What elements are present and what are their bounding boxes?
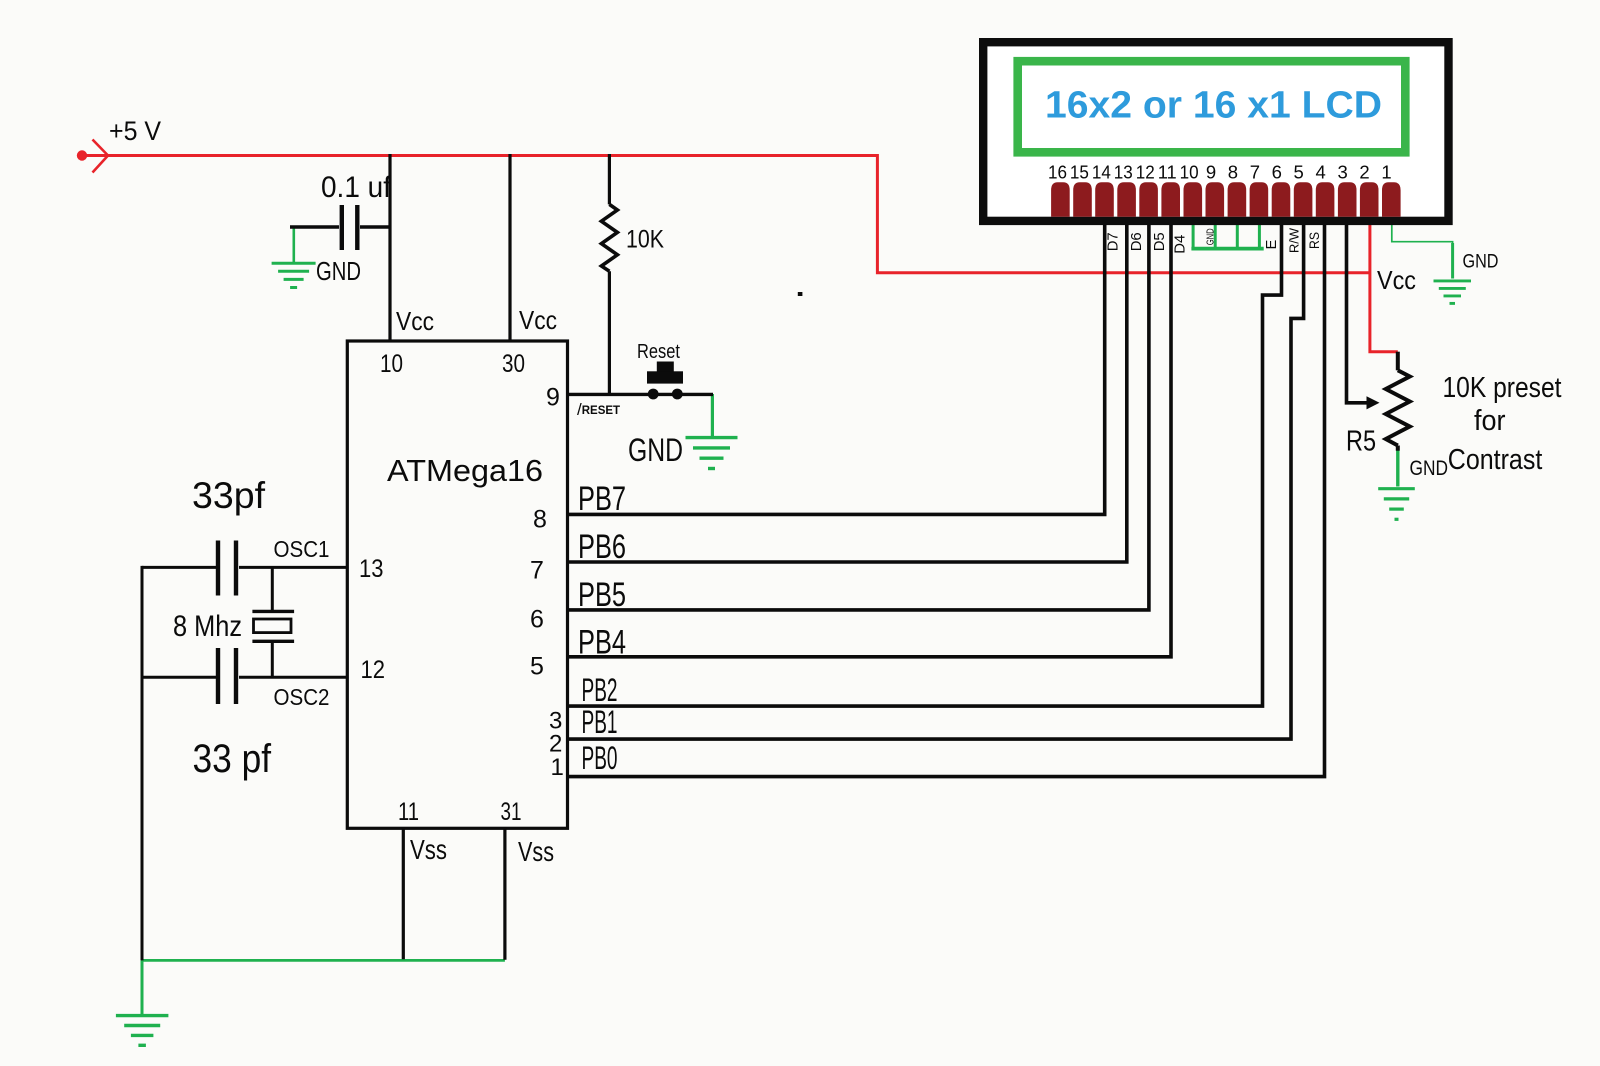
svg-text:PB5: PB5 <box>578 576 626 614</box>
wire +5V bus to 10K resistor top <box>608 154 611 204</box>
svg-text:PB4: PB4 <box>578 624 626 662</box>
svg-text:GND: GND <box>1410 457 1449 480</box>
svg-text:Vss: Vss <box>410 834 447 865</box>
svg-text:16: 16 <box>1048 162 1067 183</box>
svg-text:10K preset: 10K preset <box>1443 372 1562 404</box>
svg-text:10K: 10K <box>626 226 664 254</box>
LCD pin numbers 16..1 <box>1048 162 1392 183</box>
svg-text:/RESET: /RESET <box>577 400 620 419</box>
svg-text:PB6: PB6 <box>578 528 626 566</box>
wire Vcc pin30 vertical from +5V bus to IC <box>508 154 511 341</box>
ground symbol (C1 decoupling cap) <box>272 263 316 287</box>
capacitor C1 0.1uf plates <box>340 205 344 250</box>
svg-text:11: 11 <box>1158 162 1177 183</box>
wire PB2 to LCD E (pin6) with jog <box>568 224 1282 706</box>
svg-text:15: 15 <box>1070 162 1089 183</box>
svg-text:R5: R5 <box>1346 426 1376 458</box>
svg-text:1: 1 <box>1381 162 1391 183</box>
svg-text:13: 13 <box>1114 162 1133 183</box>
svg-text:10: 10 <box>1180 162 1199 183</box>
svg-text:+5 V: +5 V <box>109 116 161 146</box>
LCD pin pads 16..1 <box>1051 182 1401 217</box>
svg-text:5: 5 <box>530 653 544 681</box>
svg-text:Vcc: Vcc <box>519 305 557 335</box>
svg-text:3: 3 <box>1337 162 1347 183</box>
svg-text:33pf: 33pf <box>192 474 266 516</box>
ground symbol (R5 contrast preset) <box>1378 489 1415 520</box>
svg-text:D5: D5 <box>1152 232 1168 251</box>
svg-text:33 pf: 33 pf <box>193 737 272 781</box>
svg-text:5: 5 <box>1294 162 1304 183</box>
wire green reset button to ground <box>711 394 714 437</box>
wire OSC2 net from left rail to IC pin12 <box>142 676 216 679</box>
svg-text:for: for <box>1474 405 1506 437</box>
svg-text:R/W: R/W <box>1287 227 1302 253</box>
wire PB1 to LCD R/W (pin5) with jog <box>568 224 1304 739</box>
resistor R5 10K preset body <box>1396 352 1400 371</box>
svg-text:7: 7 <box>1250 162 1260 183</box>
wire green bottom ground rail under IC <box>141 959 505 962</box>
svg-text:RS: RS <box>1306 232 1322 249</box>
svg-text:Contrast: Contrast <box>1448 444 1543 476</box>
wire 10K resistor bottom to /RESET node <box>608 271 611 394</box>
svg-text:PB0: PB0 <box>582 740 618 776</box>
capacitor C3 33pf plates (bottom) <box>216 648 220 704</box>
svg-text:E: E <box>1264 239 1280 249</box>
svg-text:12: 12 <box>361 656 386 684</box>
push button SW1 Reset <box>647 362 683 400</box>
wire PB0 to LCD RS (pin4) <box>568 224 1325 777</box>
wire PB4 to LCD D4 (pin11) <box>568 224 1172 657</box>
LCD module outer frame <box>983 42 1448 221</box>
svg-text:8: 8 <box>1228 162 1238 183</box>
wire ground lead of C1 <box>292 227 295 262</box>
svg-text:GND: GND <box>1463 252 1499 273</box>
crystal X1 8Mhz symbol <box>252 567 294 677</box>
svg-text:GND: GND <box>316 256 361 286</box>
capacitor C1 0.1uf leads <box>290 225 339 228</box>
svg-text:D4: D4 <box>1173 235 1189 254</box>
capacitor C2 33pf plates (top) <box>216 541 220 596</box>
wire LCD pin3 contrast to R5 wiper arrow <box>1347 224 1368 403</box>
wire Vss pin11 to ground rail <box>402 828 405 959</box>
svg-text:2: 2 <box>1359 162 1369 183</box>
LCD green display bezel <box>1018 61 1406 152</box>
svg-text:PB2: PB2 <box>582 672 618 708</box>
resistor R-10K reset pull-up zigzag <box>601 204 617 271</box>
svg-text:Vcc: Vcc <box>396 306 434 336</box>
wire green LCD pin1 to ground <box>1392 225 1453 279</box>
svg-text:14: 14 <box>1092 162 1111 183</box>
svg-text:12: 12 <box>1136 162 1155 183</box>
op-amp U1 ATMega16 IC body <box>347 341 567 828</box>
svg-text:D6: D6 <box>1129 232 1145 251</box>
svg-text:30: 30 <box>502 350 525 378</box>
svg-text:D7: D7 <box>1106 232 1122 251</box>
svg-text:Vcc: Vcc <box>1377 265 1416 295</box>
wire OSC1 net from left rail to IC pin13 <box>142 566 216 569</box>
svg-text:PB1: PB1 <box>582 704 618 740</box>
wire PB5 to LCD D5 (pin12) <box>568 224 1149 610</box>
svg-text:OSC2: OSC2 <box>274 684 330 710</box>
svg-text:0.1 uf: 0.1 uf <box>321 171 392 204</box>
wire left vertical rail joining 33pf caps to ground <box>141 566 144 961</box>
wire pin9 /RESET from IC through reset button <box>568 393 714 396</box>
wire green R5 bottom to ground <box>1396 447 1399 487</box>
svg-text:11: 11 <box>398 798 419 826</box>
svg-text:1: 1 <box>551 754 564 781</box>
ground symbol (LCD pin1) <box>1434 281 1472 304</box>
ground symbol (reset button) <box>686 438 738 469</box>
wire red LCD pin2 Vcc drop to R5 top <box>1370 224 1398 352</box>
svg-text:16x2 or 16 x1 LCD: 16x2 or 16 x1 LCD <box>1045 85 1382 127</box>
svg-text:OSC1: OSC1 <box>274 536 330 562</box>
svg-text:Reset: Reset <box>637 341 680 363</box>
junction speck near x=800 <box>798 292 803 296</box>
wire +5V red bus: top horizontal, drop at x=877, horizontal to LCD pin2 column <box>82 156 1370 273</box>
wire Vss pin31 to ground rail <box>503 828 506 960</box>
svg-text:ATMega16: ATMega16 <box>387 453 543 488</box>
svg-text:8: 8 <box>533 506 547 534</box>
svg-text:13: 13 <box>359 555 384 583</box>
svg-text:9: 9 <box>546 384 560 412</box>
svg-text:GND: GND <box>1205 228 1216 245</box>
node +5V supply terminal (red dot and arrow) <box>77 140 108 173</box>
svg-text:6: 6 <box>530 606 544 634</box>
svg-text:6: 6 <box>1272 162 1282 183</box>
svg-text:31: 31 <box>501 798 522 826</box>
svg-text:PB7: PB7 <box>578 480 626 518</box>
svg-text:Vss: Vss <box>518 836 554 867</box>
svg-text:7: 7 <box>530 557 544 585</box>
ground symbol (main ground, bottom left) <box>116 1016 168 1046</box>
svg-text:10: 10 <box>380 350 403 378</box>
svg-text:GND: GND <box>628 432 683 468</box>
wire PB7 to LCD D7 (pin14) <box>568 224 1105 514</box>
svg-text:9: 9 <box>1206 162 1216 183</box>
svg-text:8 Mhz: 8 Mhz <box>173 610 242 643</box>
wire Vcc pin10 vertical from +5V bus to IC <box>388 154 391 341</box>
svg-text:4: 4 <box>1316 162 1326 183</box>
wire green GND bracket shorting LCD pins 10,9,8,7 <box>1191 224 1263 249</box>
wire PB6 to LCD D6 (pin13) <box>568 224 1127 562</box>
